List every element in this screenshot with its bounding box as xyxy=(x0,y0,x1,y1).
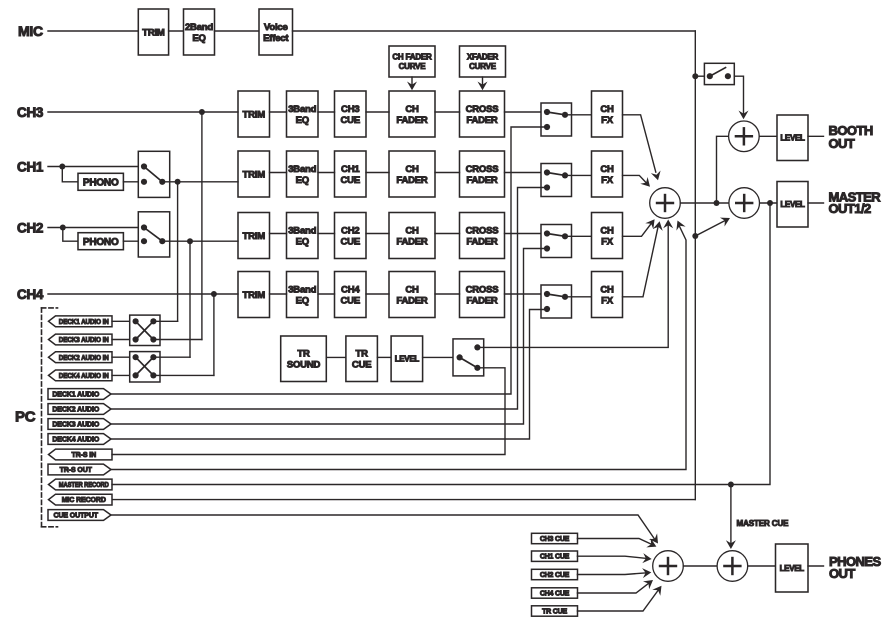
svg-text:MASTER CUE: MASTER CUE xyxy=(737,519,790,528)
svg-text:DECK1 AUDIO: DECK1 AUDIO xyxy=(52,392,100,399)
svg-text:CH FADER: CH FADER xyxy=(392,53,432,62)
svg-text:TRIM: TRIM xyxy=(243,290,266,301)
svg-text:CUE: CUE xyxy=(341,175,360,186)
svg-text:CUE: CUE xyxy=(341,236,360,247)
svg-text:CH4: CH4 xyxy=(17,287,44,302)
svg-text:TR: TR xyxy=(297,349,310,360)
svg-text:FADER: FADER xyxy=(466,175,498,186)
svg-text:MIC: MIC xyxy=(18,23,43,39)
svg-text:CH4 CUE: CH4 CUE xyxy=(540,591,570,598)
svg-text:EQ: EQ xyxy=(296,236,309,247)
svg-text:Effect: Effect xyxy=(263,33,289,44)
svg-text:CH1: CH1 xyxy=(17,160,44,175)
svg-text:CUE: CUE xyxy=(352,360,371,371)
svg-text:3Band: 3Band xyxy=(288,284,316,295)
svg-text:OUT1/2: OUT1/2 xyxy=(829,201,872,216)
svg-text:3Band: 3Band xyxy=(288,164,316,175)
svg-text:FX: FX xyxy=(601,295,614,306)
svg-text:DECK4 AUDIO: DECK4 AUDIO xyxy=(52,437,100,444)
svg-text:3Band: 3Band xyxy=(288,104,316,115)
svg-text:2Band: 2Band xyxy=(185,22,213,33)
svg-text:CROSS: CROSS xyxy=(466,225,499,236)
svg-text:CROSS: CROSS xyxy=(466,284,499,295)
svg-text:CUE: CUE xyxy=(341,115,360,126)
svg-text:TR CUE: TR CUE xyxy=(542,609,567,616)
svg-text:FADER: FADER xyxy=(396,236,428,247)
svg-text:PHONO: PHONO xyxy=(83,177,119,188)
svg-text:DECK1 AUDIO IN: DECK1 AUDIO IN xyxy=(59,319,109,326)
svg-text:OUT: OUT xyxy=(829,566,855,581)
svg-text:CH: CH xyxy=(600,164,614,175)
svg-text:CUE OUTPUT: CUE OUTPUT xyxy=(53,513,98,520)
svg-text:TRIM: TRIM xyxy=(243,109,266,120)
svg-text:DECK3 AUDIO IN: DECK3 AUDIO IN xyxy=(59,337,109,344)
svg-text:PC: PC xyxy=(15,409,36,426)
svg-text:CH: CH xyxy=(600,284,614,295)
svg-text:EQ: EQ xyxy=(296,295,309,306)
svg-text:Voice: Voice xyxy=(264,22,288,33)
svg-text:FADER: FADER xyxy=(466,115,498,126)
svg-text:MIC RECORD: MIC RECORD xyxy=(62,497,106,504)
svg-text:CH2: CH2 xyxy=(341,225,359,236)
svg-text:TR-S IN: TR-S IN xyxy=(71,452,96,459)
svg-text:PHONO: PHONO xyxy=(83,237,119,248)
svg-text:MASTER RECORD: MASTER RECORD xyxy=(59,482,109,489)
svg-text:DECK3 AUDIO: DECK3 AUDIO xyxy=(52,422,100,429)
svg-text:LEVEL: LEVEL xyxy=(780,200,805,209)
svg-text:CROSS: CROSS xyxy=(466,104,499,115)
svg-text:CUE: CUE xyxy=(341,295,360,306)
svg-text:CH: CH xyxy=(405,164,419,175)
svg-text:CH: CH xyxy=(405,104,419,115)
svg-text:CH: CH xyxy=(405,225,419,236)
svg-text:LEVEL: LEVEL xyxy=(780,564,805,573)
svg-text:CH4: CH4 xyxy=(341,284,360,295)
svg-text:CH2 CUE: CH2 CUE xyxy=(540,572,570,579)
svg-text:CH1 CUE: CH1 CUE xyxy=(540,554,570,561)
svg-text:DECK2 AUDIO IN: DECK2 AUDIO IN xyxy=(59,355,109,362)
svg-text:CROSS: CROSS xyxy=(466,164,499,175)
svg-text:TRIM: TRIM xyxy=(142,27,165,38)
svg-text:CURVE: CURVE xyxy=(469,62,497,71)
svg-text:CH: CH xyxy=(600,225,614,236)
svg-text:FX: FX xyxy=(601,115,614,126)
svg-text:LEVEL: LEVEL xyxy=(780,134,805,143)
svg-text:CH3: CH3 xyxy=(17,105,44,120)
svg-text:OUT: OUT xyxy=(829,136,855,151)
svg-text:TR: TR xyxy=(356,349,369,360)
svg-text:DECK2 AUDIO: DECK2 AUDIO xyxy=(52,407,100,414)
svg-text:CH: CH xyxy=(600,104,614,115)
svg-text:DECK4 AUDIO IN: DECK4 AUDIO IN xyxy=(59,373,109,380)
svg-text:SOUND: SOUND xyxy=(287,360,321,371)
svg-text:FX: FX xyxy=(601,236,614,247)
svg-text:EQ: EQ xyxy=(296,175,309,186)
svg-text:EQ: EQ xyxy=(296,115,309,126)
svg-text:LEVEL: LEVEL xyxy=(395,355,420,364)
svg-text:XFADER: XFADER xyxy=(467,53,499,62)
svg-text:FADER: FADER xyxy=(466,236,498,247)
svg-text:3Band: 3Band xyxy=(288,225,316,236)
svg-text:FADER: FADER xyxy=(396,175,428,186)
svg-text:TR-S OUT: TR-S OUT xyxy=(60,467,93,474)
svg-text:CURVE: CURVE xyxy=(399,62,427,71)
svg-text:CH1: CH1 xyxy=(341,164,360,175)
svg-text:CH3: CH3 xyxy=(341,104,359,115)
svg-text:CH: CH xyxy=(405,284,419,295)
svg-text:FX: FX xyxy=(601,175,614,186)
svg-text:EQ: EQ xyxy=(192,33,205,44)
svg-text:TRIM: TRIM xyxy=(243,231,266,242)
svg-text:FADER: FADER xyxy=(466,295,498,306)
svg-text:TRIM: TRIM xyxy=(243,169,266,180)
svg-text:FADER: FADER xyxy=(396,115,428,126)
svg-text:CH3 CUE: CH3 CUE xyxy=(540,536,570,543)
svg-text:CH2: CH2 xyxy=(17,221,43,236)
svg-text:FADER: FADER xyxy=(396,295,428,306)
